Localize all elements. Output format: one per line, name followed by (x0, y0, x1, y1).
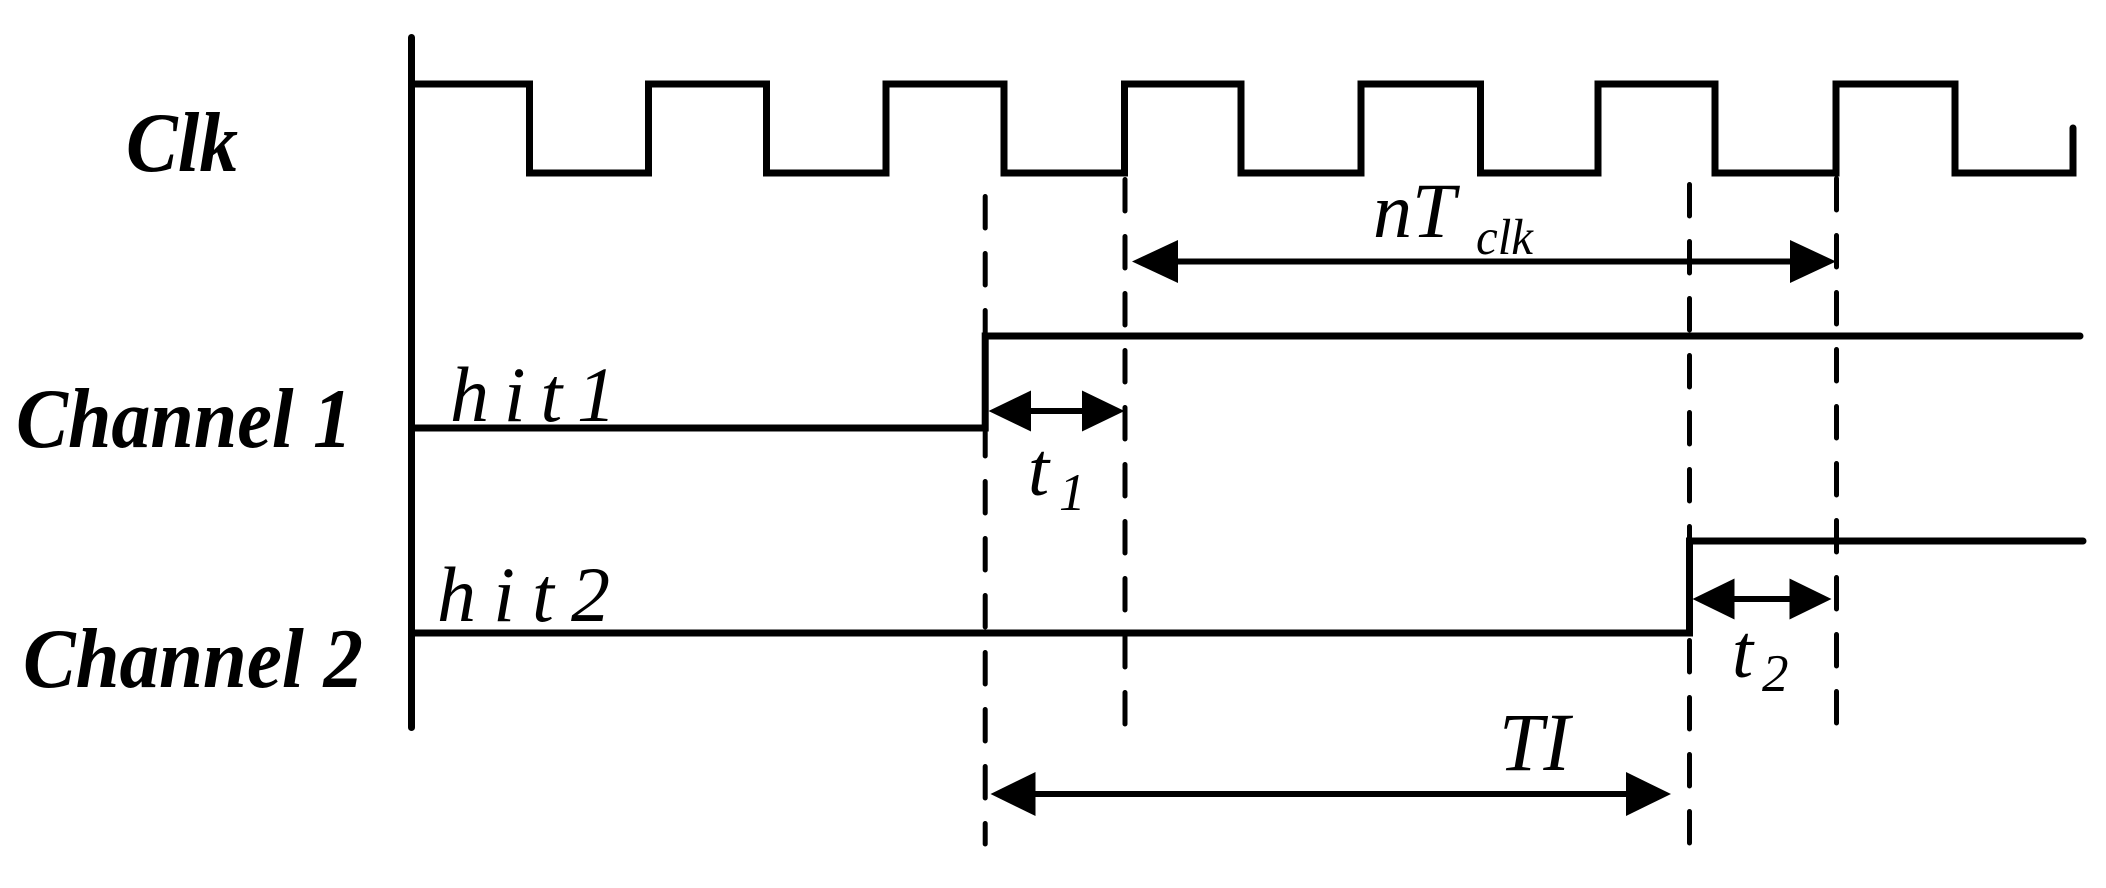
svg-text:2: 2 (1762, 645, 1789, 703)
svg-text:TI: TI (1499, 696, 1573, 788)
arrow TI (double-headed) (991, 772, 1672, 816)
svg-text:Clk: Clk (126, 96, 238, 190)
Clk waveform (412, 84, 2074, 173)
svg-text:clk: clk (1476, 210, 1534, 266)
hit2 waveform (Channel 2) (412, 541, 2084, 633)
svg-text:t: t (1732, 610, 1755, 694)
label Channel 1 (16, 372, 352, 466)
label Clk (126, 96, 238, 190)
hit1 waveform (Channel 1) (412, 336, 2081, 428)
label nT_clk (1373, 167, 1534, 266)
svg-text:hit2: hit2 (437, 551, 610, 638)
label hit1 (450, 351, 616, 438)
arrow t2 (double-headed) (1693, 579, 1832, 620)
label t2 (1732, 610, 1789, 703)
dashed line D2 (clock edge after hit1, x=1125) (1123, 180, 1128, 730)
svg-text:nT: nT (1373, 167, 1460, 254)
svg-text:1: 1 (1059, 464, 1086, 522)
dashed line D3 (hit2 rising edge, x=1689.5) (1687, 185, 1692, 853)
label Channel 2 (23, 612, 363, 706)
axis vertical line (408, 38, 415, 728)
dashed line D1 (hit1 rising edge, x=985) (983, 197, 988, 845)
arrow t1 (double-headed) (989, 391, 1125, 432)
arrow nT_clk (double-headed) (1132, 240, 1836, 283)
dashed line D4 (clock edge after hit2, x=1836.5) (1834, 179, 1839, 727)
svg-text:Channel 1: Channel 1 (16, 372, 352, 466)
label hit2 (437, 551, 610, 638)
svg-text:t: t (1028, 428, 1051, 512)
label t1 (1028, 428, 1086, 522)
label TI (1499, 696, 1573, 788)
svg-text:Channel 2: Channel 2 (23, 612, 363, 706)
